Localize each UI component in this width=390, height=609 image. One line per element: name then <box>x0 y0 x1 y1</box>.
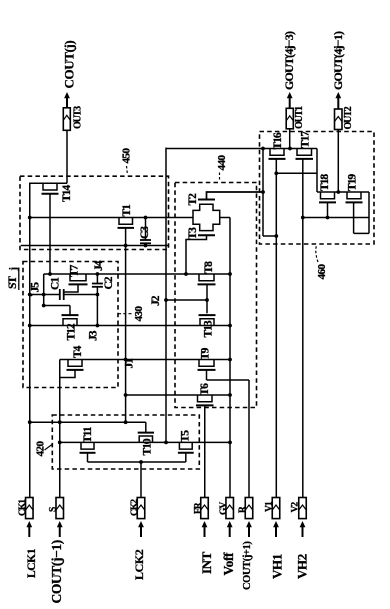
node J5 vertical x=43.7 <box>43 274 45 306</box>
svg-text:VH2: VH2 <box>295 554 310 579</box>
arrow GOUT(4j-1) <box>337 96 339 110</box>
svg-text:S: S <box>49 507 59 512</box>
svg-text:J4: J4 <box>93 260 105 271</box>
transistor T5 (gate hook to CK2 row) <box>178 442 194 462</box>
svg-text:LCK2: LCK2 <box>132 549 146 580</box>
dashed box 460 (gate output section) <box>260 132 375 245</box>
wire main clock bus y=217.5 (T14/T1 drain row) <box>30 217 193 219</box>
capacitor C3 <box>140 218 151 246</box>
arrow input VH1 <box>275 525 277 538</box>
svg-text:T12: T12 <box>66 323 78 340</box>
transistor T12 <box>63 319 77 326</box>
wire V2 to T18 gate y=217.5 <box>303 217 369 219</box>
terminal OUT3 <box>63 108 70 131</box>
svg-text:COUT(j−1): COUT(j−1) <box>49 540 64 603</box>
svg-text:OUT3: OUT3 <box>73 106 84 129</box>
transistor T4 (diode connected) <box>60 360 84 378</box>
transistor T19 <box>347 192 361 199</box>
arrow input Voff <box>229 525 231 538</box>
terminal V1 <box>272 498 280 519</box>
arrow input COUT(j&#8722;1) <box>59 525 61 538</box>
wire T19 right arm x=369 <box>368 192 370 233</box>
terminal CK1 <box>26 498 34 519</box>
wire OUT1 drop <box>289 129 291 149</box>
svg-text:C3: C3 <box>139 226 151 239</box>
dashed box 450 (carry output section) <box>20 176 169 249</box>
svg-text:T16: T16 <box>272 132 284 149</box>
label 460 with leader <box>316 246 328 280</box>
wire S vertical x=59.75 <box>59 360 61 499</box>
svg-text:OUT1: OUT1 <box>294 106 305 129</box>
transistor T11 (gate hook to CK2 row) <box>80 442 96 462</box>
capacitor C2 <box>92 274 103 326</box>
svg-text:FR: FR <box>193 502 203 514</box>
dashed box 420 (input section) <box>52 415 199 469</box>
terminal OUT1 <box>286 108 293 129</box>
arrow input COUT(j+1) <box>248 525 250 538</box>
wire J1 gate bus y=245.5 <box>21 245 169 247</box>
label STj (stage name, underlined) <box>7 268 20 291</box>
arrow input VH2 <box>302 525 304 538</box>
svg-text:V1: V1 <box>265 501 275 512</box>
svg-text:T17: T17 <box>300 131 312 148</box>
wire output feedback drop x=263 <box>262 149 264 237</box>
svg-text:C1: C1 <box>50 277 62 290</box>
svg-text:CK1: CK1 <box>18 499 28 516</box>
terminal V2 <box>299 498 307 519</box>
wire J3 row y=325.5 <box>30 325 230 327</box>
wire T19 gate link y=233.4 <box>354 232 369 234</box>
wire cross to GV line y=217.5 <box>220 217 230 219</box>
svg-text:T19: T19 <box>347 174 359 191</box>
wire R vertical x=249 <box>248 380 250 498</box>
wire J5 link y=294.5 <box>30 294 60 296</box>
svg-text:T3: T3 <box>187 227 199 240</box>
svg-text:T18: T18 <box>319 174 331 191</box>
wire T18/T19 row y=192 <box>317 191 369 193</box>
svg-text:J3: J3 <box>88 330 100 341</box>
wire V1 link y=236 <box>263 235 276 237</box>
svg-text:LCK1: LCK1 <box>26 548 38 578</box>
svg-text:GOUT(4j−1): GOUT(4j−1) <box>331 31 345 90</box>
wire 420 top row y=422.2 (T10 gate) <box>30 421 146 423</box>
transistor T10 (inverted, gate to J1 row) <box>138 422 154 442</box>
wire J4 row y=274 (430 to T8) <box>44 273 230 275</box>
transistor T1 <box>118 218 135 246</box>
svg-text:T10: T10 <box>142 438 154 455</box>
node label J5 with leader <box>30 282 42 296</box>
wire CK2 vertical x=141 <box>140 462 142 498</box>
wire x=166 output column <box>165 148 167 443</box>
wire 420 main row y=442.4 <box>60 441 230 443</box>
svg-text:T1: T1 <box>121 204 133 217</box>
wire J1 vertical x=125.6 <box>125 246 127 423</box>
svg-text:T9: T9 <box>200 347 212 360</box>
terminal R <box>245 498 253 519</box>
transistor T17 <box>297 149 312 156</box>
transistor T8 <box>199 274 214 281</box>
transistor T3 (bottom of shared cross electrode) <box>186 235 215 274</box>
svg-text:430: 430 <box>133 306 145 322</box>
wire 420 bottom row y=462 <box>88 461 186 463</box>
svg-text:INT: INT <box>199 551 214 574</box>
transistor T16 <box>270 149 284 156</box>
transistor T14 <box>30 183 67 274</box>
capacitor C1 (vertical plates) <box>60 289 64 300</box>
svg-text:T14: T14 <box>61 185 73 202</box>
arrow input INT <box>204 525 206 538</box>
svg-text:J5: J5 <box>30 282 42 293</box>
svg-text:COUT(j+1): COUT(j+1) <box>242 541 253 590</box>
svg-text:T11: T11 <box>82 426 94 443</box>
terminal OUT2 <box>335 109 343 130</box>
svg-text:460: 460 <box>316 264 328 280</box>
svg-text:T7: T7 <box>69 264 81 277</box>
transistor T18 <box>321 192 335 199</box>
wire J2 link y=300 <box>166 299 207 301</box>
wire C1 to C2 link y=294.5 <box>64 294 98 296</box>
wire T4/T9 row y=359.5 <box>60 359 230 361</box>
wire T9 gate row y=380 <box>207 379 250 381</box>
wire OUT2 drop <box>337 130 339 193</box>
svg-text:J1: J1 <box>124 358 136 369</box>
wire CK1 vertical bus x=29.75 <box>29 218 31 499</box>
label 430 with leader <box>116 306 145 322</box>
svg-text:V2: V2 <box>291 502 301 513</box>
wire T16 gate branch y=173.3 <box>276 172 317 174</box>
svg-text:Voff: Voff <box>221 552 236 576</box>
svg-text:C2: C2 <box>103 276 115 289</box>
svg-text:T2: T2 <box>187 193 199 206</box>
wire FR vertical x=204.75 <box>204 406 206 498</box>
arrow COUT(j) output <box>66 96 68 108</box>
svg-text:OUT2: OUT2 <box>343 106 354 129</box>
wire OUT3 to T14 <box>66 130 68 183</box>
svg-text:T5: T5 <box>180 430 192 443</box>
arrow input LCK1 <box>28 525 30 538</box>
svg-text:440: 440 <box>216 155 228 171</box>
svg-text:CK2: CK2 <box>130 499 140 516</box>
junction dots on buses <box>28 216 232 464</box>
wire V1 vertical x=276.3 (T16 gate) <box>275 159 277 498</box>
terminal CK2 <box>137 498 145 519</box>
wire T12 gate y=305.5 <box>44 305 70 307</box>
transistor T6 <box>198 395 213 402</box>
svg-text:J2: J2 <box>150 295 162 306</box>
svg-text:T4: T4 <box>72 345 84 358</box>
svg-text:COUT(j): COUT(j) <box>62 41 77 89</box>
svg-text:GV: GV <box>219 502 229 515</box>
label 420 with leader <box>35 441 53 457</box>
svg-text:GOUT(4j−3): GOUT(4j−3) <box>282 31 296 90</box>
terminal GV <box>226 498 234 519</box>
dashed box 440 (pull-down section) <box>175 183 257 408</box>
svg-text:T6: T6 <box>199 383 211 396</box>
svg-text:T8: T8 <box>203 261 215 274</box>
transistor T13 <box>200 319 214 326</box>
transistor T7 <box>64 274 88 294</box>
svg-text:T13: T13 <box>203 320 215 337</box>
label 450 with leader <box>121 148 133 176</box>
wire GV vertical x=230 <box>229 218 231 499</box>
junction dots 460 <box>261 147 340 238</box>
transistor T9 <box>199 360 214 367</box>
wire T16/T17 drain row y=148.5 <box>166 148 317 150</box>
svg-text:420: 420 <box>35 441 47 457</box>
terminal FR <box>201 498 209 519</box>
label 440 with leader <box>216 155 228 182</box>
arrow GOUT(4j-3) <box>289 96 291 109</box>
arrow input LCK2 <box>140 525 142 538</box>
terminal S <box>56 498 64 519</box>
wire T6 row y=395 <box>126 394 230 396</box>
svg-text:VH1: VH1 <box>270 554 285 579</box>
dashed box 430 (node control section) <box>23 262 118 388</box>
svg-text:ST: ST <box>7 276 19 289</box>
wire T17 to T18 row x=317 <box>316 149 318 193</box>
svg-text:450: 450 <box>121 148 133 164</box>
transistor T2 (top of shared cross electrode) <box>193 192 263 231</box>
wire V2 vertical x=302.8 (T17 gate) <box>302 159 304 498</box>
